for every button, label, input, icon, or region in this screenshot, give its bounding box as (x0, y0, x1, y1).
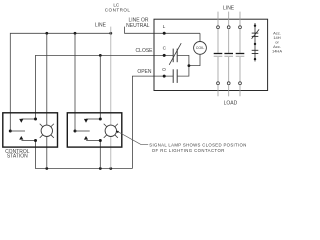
accessory 14H element (252, 23, 260, 62)
svg-text:14HA: 14HA (272, 49, 282, 54)
wire: station2 common arm (75, 130, 90, 132)
node: station2 open return on bottom bus (99, 167, 102, 170)
wire: C contact to junction (177, 55, 189, 65)
wire: line-or-neutral lead into terminal L (125, 27, 200, 34)
svg-text:L: L (163, 24, 166, 30)
wire: station 2 common feed (74, 33, 76, 131)
node: coil common junction (188, 64, 191, 67)
coil circle (194, 42, 207, 55)
svg-text:OF RC LIGHTING CONTACTOR: OF RC LIGHTING CONTACTOR (152, 148, 225, 153)
callout arrow to signal lamp 2 (116, 131, 119, 133)
node: junction station2 close feed on CLOSE wire (99, 54, 102, 57)
wire: lamp 2 feed (gray, from LC node down to lamp 2) (110, 33, 112, 125)
wire: LINE feeder (top horizontal bus and left drop to station 1 common) (10, 33, 111, 131)
wire: OPEN wire from bottom bus up and into terminal O (132, 76, 173, 168)
wire: L lead corner down to coil (199, 33, 201, 41)
node: junction station2 common feed on LINE bus (74, 32, 77, 35)
svg-text:OPEN: OPEN (137, 69, 152, 75)
pushbutton: station1 open contact (22, 140, 36, 142)
pole 2 (224, 12, 233, 97)
pushbutton: station2 open contact (86, 140, 100, 142)
pole 1 (214, 12, 223, 97)
svg-text:SIGNAL LAMP SHOWS CLOSED POSIT: SIGNAL LAMP SHOWS CLOSED POSITION (149, 143, 246, 148)
svg-text:C: C (163, 45, 167, 51)
svg-text:LINE: LINE (223, 6, 235, 12)
svg-text:O: O (162, 67, 166, 73)
wire: bottom return bus (36, 141, 133, 169)
wire: CLOSE wire from station close contacts to terminal C (36, 55, 174, 119)
wire: LC control stub (gray) (110, 27, 112, 34)
svg-text:LINE: LINE (95, 23, 107, 29)
node: station2 common terminal (74, 130, 77, 133)
svg-text:NEUTRAL: NEUTRAL (126, 23, 150, 29)
pole 3 (236, 12, 245, 97)
node: lamp2 return on bottom bus (109, 167, 112, 170)
pushbutton: station2 close contact (86, 118, 100, 120)
wire: O contact to junction (177, 66, 189, 77)
node: station1 common terminal (9, 130, 12, 133)
lamp: station1 signal lamp (41, 125, 52, 136)
wire: coil bottom to junction (189, 54, 200, 65)
wire: station1 common arm (10, 130, 25, 132)
wire: lamp 1 feed (46, 33, 48, 125)
pushbutton: station1 close contact (22, 118, 36, 120)
control station 1 box (3, 113, 58, 147)
node: junction LC control tap at end of LINE bus (109, 32, 112, 35)
node: lamp1 return on bottom bus (45, 167, 48, 170)
capacitor: open contact (172, 69, 174, 83)
svg-text:COIL: COIL (196, 46, 205, 50)
wire: station 2 close feed (99, 55, 101, 119)
node: junction lamp1 feed on LINE bus (45, 32, 48, 35)
svg-text:CONTROL: CONTROL (105, 8, 131, 13)
control station 2 box (67, 113, 122, 147)
capacitor: close contact (slashed) (172, 49, 174, 63)
wire: station 2 open contact return (99, 141, 101, 169)
svg-text:STATION: STATION (7, 154, 28, 160)
contactor enclosure box (154, 19, 268, 90)
svg-text:LOAD: LOAD (224, 101, 238, 107)
svg-text:CLOSE: CLOSE (136, 48, 154, 54)
wire: lamp 2 return (gray) (110, 137, 112, 169)
lamp: station2 signal lamp (105, 125, 116, 136)
wire: lamp 1 return (46, 137, 48, 169)
